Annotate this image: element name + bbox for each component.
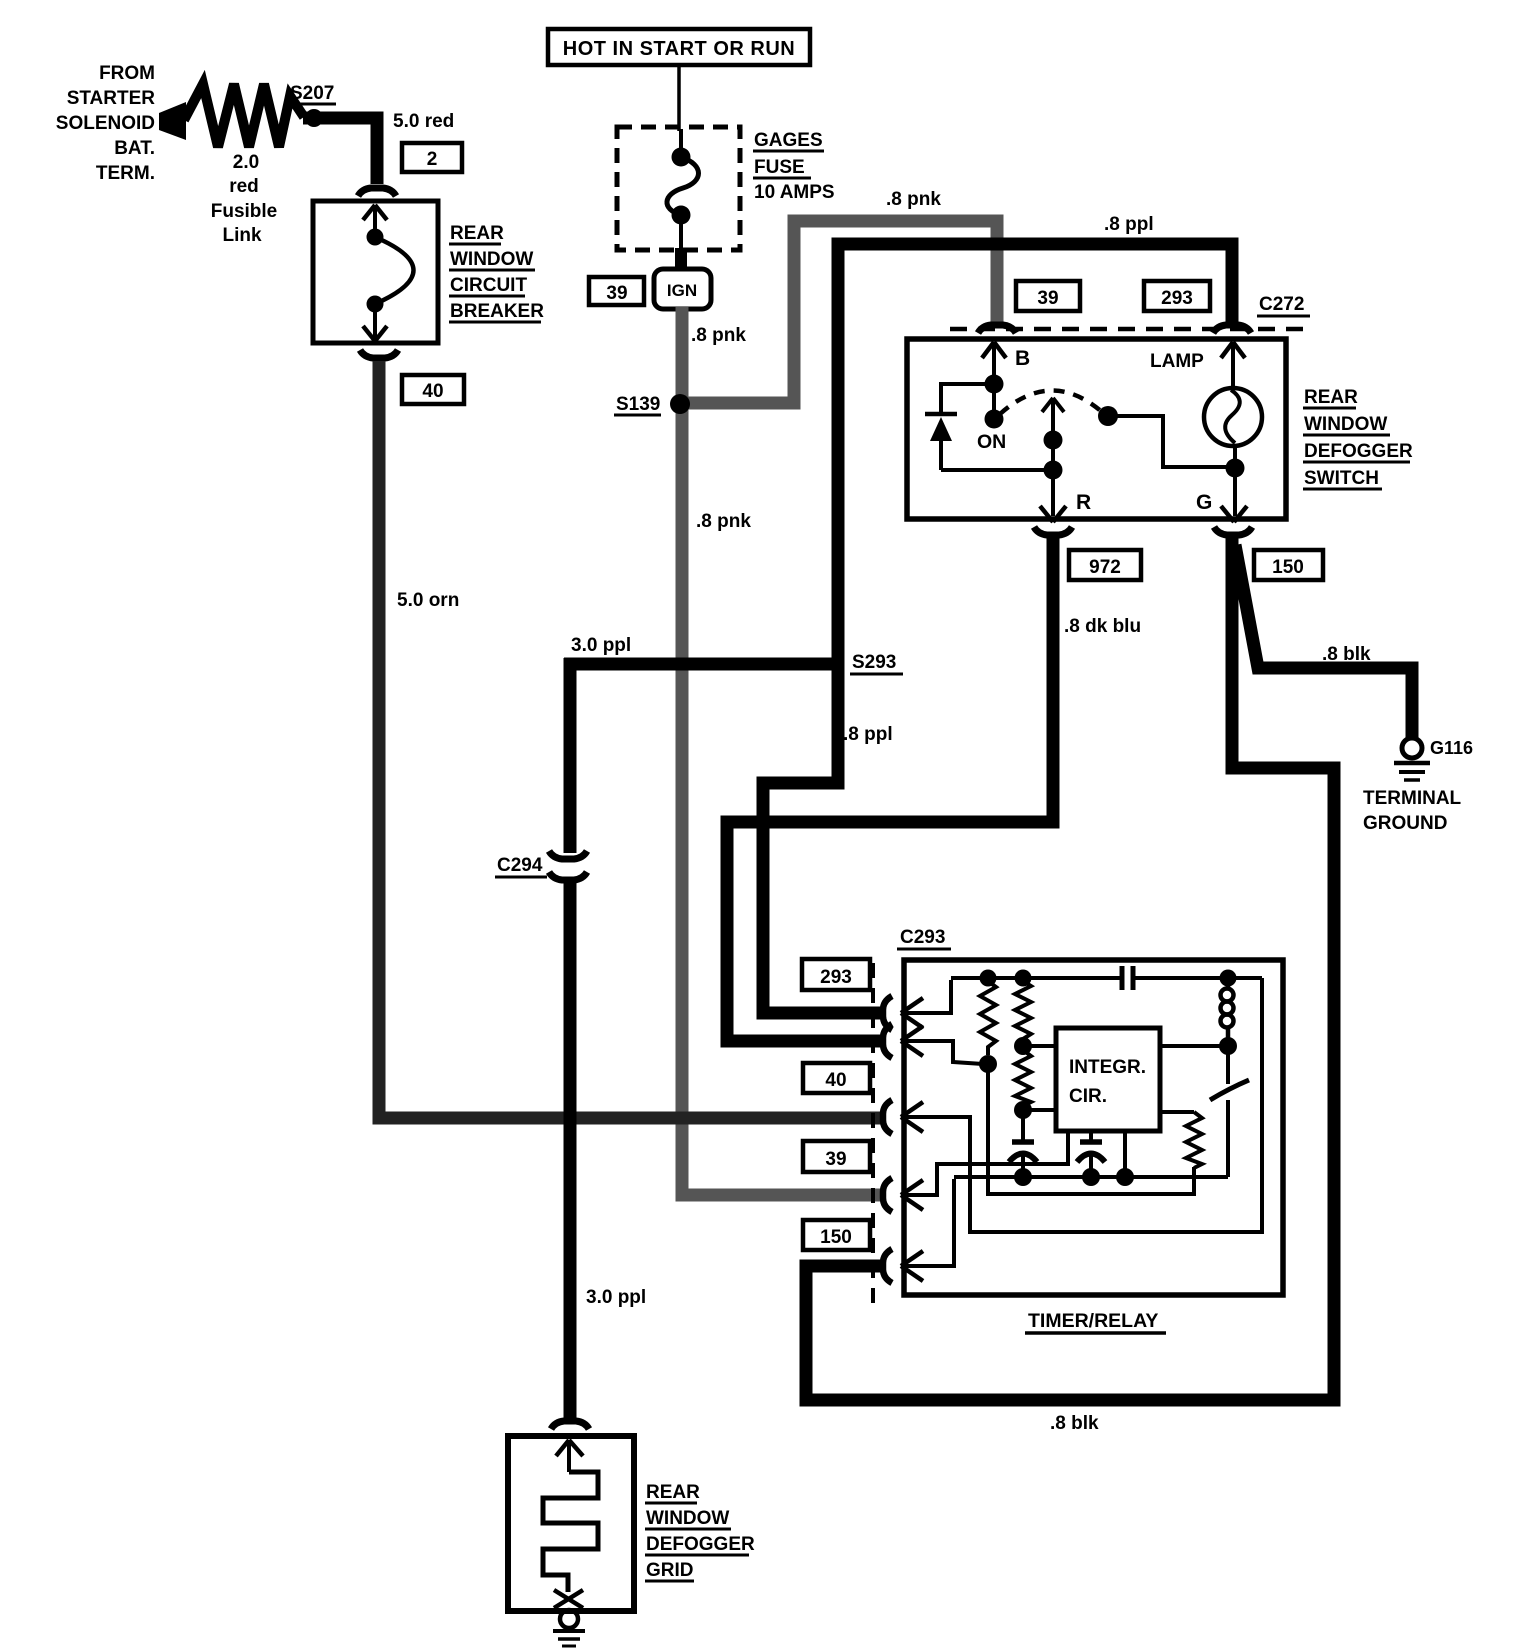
resistor R4: [1160, 1112, 1202, 1168]
IC integrated circuit box: [1056, 1028, 1160, 1131]
wire R1 bottom to R4 bottom: [988, 1064, 1194, 1194]
svg-text:TERM.: TERM.: [96, 163, 155, 184]
indicator lamp: [1204, 388, 1262, 446]
svg-text:TIMER/RELAY: TIMER/RELAY: [1028, 1310, 1158, 1332]
svg-text:150: 150: [1272, 557, 1304, 578]
label GAGES FUSE 10 AMPS: [753, 130, 835, 203]
connector C294 halves: [549, 851, 587, 859]
wire 3.0 ppl C294 to defogger grid: [564, 880, 577, 1419]
svg-text:2: 2: [427, 149, 438, 170]
svg-text:GROUND: GROUND: [1363, 813, 1447, 834]
IC bottom third lead: [1123, 1131, 1127, 1177]
timer/relay box: [904, 960, 1283, 1295]
svg-text:B: B: [1015, 347, 1030, 370]
svg-text:.8 blk: .8 blk: [1322, 644, 1371, 665]
svg-text:WINDOW: WINDOW: [646, 1508, 729, 1529]
capacitor C2: [1009, 1110, 1037, 1177]
rear window defogger grid box: [508, 1436, 634, 1611]
R2 junction dot to IC: [1014, 1037, 1032, 1055]
wire 5.0 orn (circuit 40) down then right to timer pin 40: [379, 361, 882, 1118]
circuit number box 293 (above switch): [1144, 281, 1210, 311]
svg-text:WINDOW: WINDOW: [450, 249, 533, 270]
label TIMER/RELAY: [1025, 1310, 1166, 1333]
svg-text:10 AMPS: 10 AMPS: [754, 182, 835, 203]
wire .8 blk G pin loop to timer pin 150: [806, 538, 1334, 1400]
R1 junction dot: [979, 1055, 997, 1073]
switch pin B arrow: [982, 342, 1006, 378]
connector cup above circuit breaker: [358, 188, 396, 196]
svg-text:CIR.: CIR.: [1069, 1086, 1107, 1107]
value label 2.0 red Fusible Link: [211, 152, 278, 246]
svg-text:FUSE: FUSE: [754, 157, 805, 178]
svg-text:.8 pnk: .8 pnk: [691, 325, 746, 346]
svg-text:R: R: [1076, 491, 1091, 514]
timer top rail with capacitor C1: [951, 966, 1262, 990]
svg-text:REAR: REAR: [646, 1482, 700, 1503]
svg-text:WINDOW: WINDOW: [1304, 414, 1387, 435]
terminal IGN box: [654, 269, 711, 309]
pin 293b bracket and arrow: [883, 1024, 983, 1064]
connector cup below G: [1214, 527, 1252, 535]
connector cup above grid: [551, 1421, 589, 1429]
switch moving contact dot and wire to lamp: [1098, 406, 1118, 426]
svg-text:293: 293: [820, 967, 852, 988]
wire fuse to IGN: [675, 248, 687, 271]
circuit number box 39 (timer): [803, 1141, 870, 1172]
circuit breaker CB box: [313, 201, 438, 343]
svg-text:S293: S293: [852, 652, 896, 673]
svg-text:red: red: [229, 176, 259, 197]
wire 5.0 red: [303, 118, 377, 184]
connector C293 label: [897, 927, 951, 949]
svg-text:3.0 ppl: 3.0 ppl: [571, 635, 631, 656]
R3 junction dot to IC: [1014, 1101, 1032, 1119]
svg-text:STARTER: STARTER: [67, 88, 156, 109]
svg-text:2.0: 2.0: [233, 152, 259, 173]
svg-text:IGN: IGN: [667, 281, 697, 300]
resistor R1: [980, 981, 996, 1055]
circuit number box 40 (left): [402, 375, 464, 404]
svg-text:Fusible: Fusible: [211, 201, 278, 222]
splice S293 label: [850, 652, 903, 674]
svg-text:DEFOGGER: DEFOGGER: [646, 1534, 755, 1555]
connector cup C272 pin LAMP: [1213, 325, 1251, 333]
wire .8 pnk S139 down to timer pin 39: [682, 409, 882, 1195]
connector C293 dashed line: [871, 963, 875, 1303]
wire 3.0 ppl horizontal: [564, 658, 844, 671]
wire from hot feed to fuse: [677, 65, 681, 131]
rail junction dots: [980, 970, 997, 987]
fusible link FL (2.0 red) zigzag: [184, 84, 304, 147]
pin 40 bracket and arrow: [883, 978, 1262, 1232]
wire .8 dk blu R pin to timer pin 293: [727, 538, 1053, 1041]
lamp lower dot and G pin: [1226, 459, 1245, 478]
terminal ground at grid: [553, 1610, 585, 1646]
svg-text:G: G: [1196, 491, 1212, 514]
capacitor C3: [1077, 1131, 1105, 1177]
circuit number box 2: [402, 143, 462, 172]
svg-text:5.0 red: 5.0 red: [393, 111, 454, 132]
svg-text:ON: ON: [977, 431, 1006, 453]
svg-text:BREAKER: BREAKER: [450, 301, 544, 322]
grid element: [543, 1440, 598, 1608]
label REAR WINDOW DEFOGGER SWITCH: [1303, 387, 1413, 489]
svg-text:.8 ppl: .8 ppl: [1104, 214, 1154, 235]
pin 39 bracket and arrow: [883, 1131, 1068, 1212]
splice S207 dot: [305, 109, 323, 127]
switch node dots at B: [985, 375, 1004, 394]
connector cup below R: [1034, 527, 1072, 535]
svg-text:REAR: REAR: [450, 223, 504, 244]
svg-text:CIRCUIT: CIRCUIT: [450, 275, 527, 296]
ground G116 symbol: [1394, 738, 1430, 780]
svg-text:.8 dk blu: .8 dk blu: [1064, 616, 1141, 637]
svg-text:BAT.: BAT.: [114, 138, 155, 159]
svg-text:C272: C272: [1259, 294, 1304, 315]
wire .8 ppl switch LAMP pin to S293 to timer pin 293: [763, 244, 1232, 1013]
svg-text:SOLENOID: SOLENOID: [56, 113, 155, 134]
fuse element: [667, 129, 699, 248]
wire 3.0 ppl down to C294: [564, 658, 577, 853]
circuit number box 150 (upper): [1254, 550, 1323, 580]
svg-text:INTEGR.: INTEGR.: [1069, 1057, 1146, 1078]
svg-text:972: 972: [1089, 557, 1121, 578]
svg-text:150: 150: [820, 1227, 852, 1248]
wire IC to coil junction: [1160, 1044, 1228, 1048]
svg-text:S207: S207: [290, 83, 334, 104]
svg-text:39: 39: [825, 1149, 846, 1170]
svg-text:S139: S139: [616, 394, 660, 415]
relay coil L1: [1221, 978, 1234, 1040]
svg-text:REAR: REAR: [1304, 387, 1358, 408]
resistor R3: [1015, 1050, 1031, 1106]
connector C272 label: [1257, 294, 1310, 316]
svg-text:G116: G116: [1430, 738, 1473, 758]
lamp pin arrow: [1221, 342, 1245, 388]
svg-text:LAMP: LAMP: [1150, 351, 1204, 372]
connector C272 dashed line: [950, 327, 1303, 332]
svg-text:TERMINAL: TERMINAL: [1363, 788, 1462, 809]
wire .8 pnk S139 to switch pin B: [687, 221, 997, 403]
wire .8 pnk IGN to S139: [676, 307, 689, 399]
label REAR WINDOW DEFOGGER GRID: [645, 1482, 755, 1581]
svg-text:39: 39: [606, 283, 627, 304]
switch dashed throw arc: [1000, 390, 1102, 414]
svg-text:39: 39: [1037, 288, 1058, 309]
svg-text:SWITCH: SWITCH: [1304, 468, 1379, 489]
svg-text:FROM: FROM: [99, 63, 155, 84]
connector cup C272 pin B: [978, 325, 1016, 333]
circuit number box 39 (left of IGN): [589, 277, 644, 305]
circuit number box 150 (timer): [803, 1220, 870, 1250]
splice S139 label: [614, 394, 661, 415]
svg-text:GRID: GRID: [646, 1560, 694, 1581]
switch pole R arrows and dots: [1040, 398, 1066, 522]
svg-text:Link: Link: [222, 225, 261, 246]
svg-text:5.0 orn: 5.0 orn: [397, 590, 459, 611]
svg-text:C294: C294: [497, 855, 543, 876]
svg-text:DEFOGGER: DEFOGGER: [1304, 441, 1413, 462]
relay contact (switch blade): [1210, 1046, 1249, 1177]
svg-text:293: 293: [1161, 288, 1193, 309]
circuit breaker element: [363, 205, 414, 341]
circuit number box 293 (timer): [802, 959, 870, 990]
pin 293a bracket and arrow: [883, 980, 951, 1030]
circuit number box 39 (above switch): [1016, 281, 1080, 311]
node HOT IN START OR RUN box: [548, 29, 810, 65]
svg-text:40: 40: [825, 1070, 846, 1091]
fuse GAGES FUSE 10 AMPS dashed box: [617, 127, 740, 250]
svg-text:C293: C293: [900, 927, 945, 948]
rear window defogger switch box: [907, 339, 1286, 519]
wire stub from starter solenoid (wedge): [159, 102, 186, 140]
svg-text:40: 40: [422, 381, 443, 402]
resistor R2: [1015, 981, 1031, 1039]
node FROM STARTER SOLENOID BAT. TERM. label: [56, 63, 156, 184]
coil junction dot: [1219, 1037, 1237, 1055]
svg-text:.8 blk: .8 blk: [1050, 1413, 1099, 1434]
svg-text:3.0 ppl: 3.0 ppl: [586, 1287, 646, 1308]
svg-text:GAGES: GAGES: [754, 130, 823, 151]
label REAR WINDOW CIRCUIT BREAKER: [449, 223, 544, 322]
svg-text:.8 pnk: .8 pnk: [886, 189, 941, 210]
timer bottom rail: [954, 1175, 1228, 1179]
wire .8 blk to ground G116: [1235, 545, 1412, 738]
splice S207 label: [288, 83, 336, 104]
svg-text:.8 pnk: .8 pnk: [696, 511, 751, 532]
svg-text:.8 ppl: .8 ppl: [843, 724, 893, 745]
connector C294 label: [495, 855, 547, 877]
circuit number box 40 (timer): [803, 1063, 870, 1093]
circuit number box 972: [1069, 550, 1141, 580]
connector cup below circuit breaker: [360, 350, 398, 358]
diode branch inside switch: [925, 384, 1053, 470]
pin 150 bracket and arrow: [883, 1179, 954, 1283]
splice S139 dot: [670, 394, 690, 414]
svg-text:HOT IN START OR RUN: HOT IN START OR RUN: [563, 38, 795, 60]
label TERMINAL GROUND: [1363, 788, 1462, 834]
